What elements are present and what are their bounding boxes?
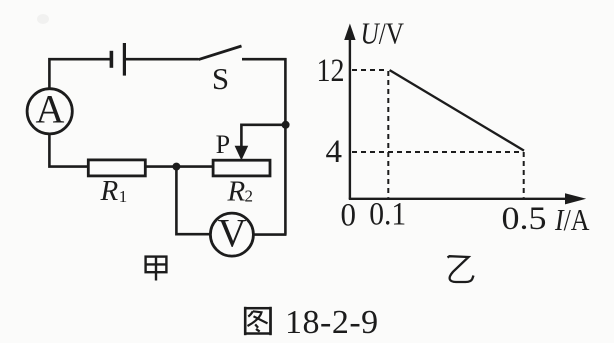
dashed guide x=0.1 <box>387 71 389 198</box>
y-axis U <box>344 24 355 200</box>
svg-text:0: 0 <box>341 198 357 234</box>
label R1 <box>100 175 128 207</box>
label 乙 (graph caption, drawn glyph) <box>448 256 474 282</box>
svg-text:I/A: I/A <box>554 202 590 237</box>
label 4 <box>326 134 343 170</box>
wire: top-left corner, battery to ammeter <box>49 59 111 88</box>
wire: ammeter to bottom rail <box>49 134 88 167</box>
ammeter A <box>27 86 72 134</box>
svg-text:18-2-9: 18-2-9 <box>285 304 379 341</box>
wire: voltmeter to right rail <box>253 233 286 236</box>
wire: right rail <box>284 58 287 235</box>
figure caption: 18-2-9 <box>285 304 379 341</box>
scan speck top-left <box>37 14 49 24</box>
label 0.1 <box>369 197 406 233</box>
label 12 <box>317 53 345 89</box>
wire: junction down to voltmeter <box>176 167 210 235</box>
svg-text:P: P <box>216 130 230 159</box>
label R2 <box>227 175 254 207</box>
svg-text:0.5: 0.5 <box>502 201 547 237</box>
label S <box>212 61 229 96</box>
battery long plate <box>123 43 126 76</box>
svg-text:0.1: 0.1 <box>369 197 406 233</box>
voltmeter V <box>210 210 253 256</box>
dashed guide y=4 <box>352 151 523 153</box>
label U/V <box>361 15 405 50</box>
wire: battery to switch <box>124 58 198 61</box>
label 甲 (circuit caption, drawn glyph) <box>146 257 167 281</box>
svg-text:4: 4 <box>326 134 343 170</box>
label 0.5 <box>502 201 547 237</box>
svg-text:1: 1 <box>119 187 128 206</box>
svg-text:R: R <box>100 175 119 207</box>
rheostat R2 <box>213 160 270 176</box>
svg-text:A: A <box>35 86 64 131</box>
svg-text:R: R <box>227 175 246 207</box>
dashed guide x=0.5 <box>523 152 525 198</box>
slider P arrowhead <box>235 146 249 161</box>
label I/A <box>554 202 590 237</box>
figure caption: 图 (drawn glyph) <box>245 307 270 335</box>
svg-text:12: 12 <box>317 53 345 89</box>
svg-text:2: 2 <box>245 186 254 205</box>
wire: junction to R2 <box>176 165 213 168</box>
switch S blade <box>199 46 242 60</box>
wire: wiper from junction to slider <box>241 125 285 148</box>
wire: switch to right rail <box>242 58 287 61</box>
dashed guide y=12 <box>352 69 388 71</box>
svg-text:V: V <box>218 210 247 255</box>
U-I characteristic line <box>390 70 524 151</box>
battery short plate <box>110 51 114 68</box>
label 0 (origin) <box>341 198 357 234</box>
label P <box>216 130 230 159</box>
junction node between R1 and R2 <box>172 163 180 171</box>
x-axis I <box>349 193 586 204</box>
svg-text:U/V: U/V <box>361 15 405 50</box>
resistor R1 <box>88 160 145 176</box>
svg-text:S: S <box>212 61 229 96</box>
junction dot on right rail <box>282 121 290 129</box>
wire: R1 to junction node <box>145 165 176 168</box>
